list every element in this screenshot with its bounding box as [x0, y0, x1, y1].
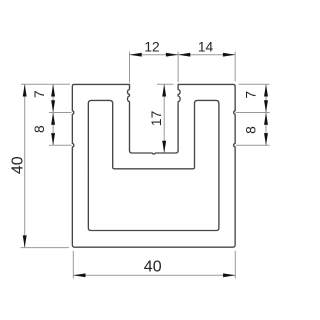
svg-text:7: 7: [32, 90, 47, 98]
svg-text:40: 40: [10, 156, 27, 174]
svg-text:12: 12: [144, 39, 159, 54]
svg-text:8: 8: [32, 125, 47, 133]
svg-text:17: 17: [149, 111, 164, 126]
svg-text:14: 14: [198, 39, 214, 54]
svg-text:8: 8: [244, 126, 259, 134]
svg-text:40: 40: [144, 258, 162, 275]
svg-text:7: 7: [244, 91, 259, 99]
